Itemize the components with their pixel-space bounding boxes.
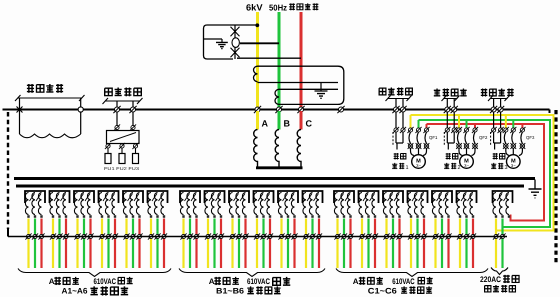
wire: fuse leads [108,148,136,154]
node: TV1 center pill [232,38,239,48]
svg-text:220AC: 220AC [480,275,501,284]
wire: main 6kV bus [3,110,550,114]
svg-text:FU1 FU2 FU3: FU1 FU2 FU3 [104,166,140,171]
svg-text:6kV: 6kV [246,3,263,13]
value label: to unit cabinet [485,285,516,293]
value label: group A phase coil 610VAC output [49,277,133,286]
wire: dashed cabinet border right [554,110,557,264]
svg-text:610VAC: 610VAC [392,277,415,286]
value label: 6kV 50Hz power input title [246,3,318,13]
svg-text:QF1: QF1 [429,135,438,140]
svg-text:1: 1 [406,165,409,171]
transformer secondary winding unit B1 [180,191,200,268]
ground: TV1 earth symbol [216,42,228,48]
wire: brace group B [179,269,325,277]
motor M2: cooling fan 2 [460,155,474,169]
breaker QF1 top contacts [393,127,399,133]
wire: phase A vertical (yellow) [256,12,259,111]
wire: filter rail 1 [258,65,339,67]
value label: 220AC output [480,275,519,284]
wire: TV1 ground branch [204,39,222,42]
inductor: bypass reactor wave [20,134,81,138]
wire: fan 1 colored drops [410,115,412,129]
wire: primary stub B (green) [278,111,281,130]
wire: phase B vertical (green) [278,12,281,111]
breaker QF1 linkage dashes [392,132,394,146]
svg-text:B: B [284,119,291,129]
value label: group C unit input C1~C6 [368,286,432,295]
node: tap2 upper contacts [114,124,120,130]
transformer secondary winding unit C1 [334,191,354,268]
breaker QF3 linkage dashes [490,132,492,146]
wire: fan 3 bracket [488,96,510,102]
transformer secondary winding unit B6 [303,191,323,268]
wire: fan 1 bracket [386,96,412,102]
motor M1: cooling fan 1 [412,155,426,169]
wire: fan 2 supply drops [447,99,454,131]
wire: TV1 bottom lead to phase C [237,57,301,59]
wire: fan 1 supply drops [396,99,403,131]
wire: dashed cabinet border left [7,112,9,229]
transformer secondary winding unit B2 [205,191,225,268]
svg-text:C: C [306,119,313,129]
wire: fan feeder green [419,120,551,227]
wire: motor 1 leads [411,148,427,155]
wire: fan 3 colored drops [505,115,507,129]
wire: TV1 top lead to phase A [233,24,256,26]
op box: surge arrester / PT unit TV1 outline [204,25,234,59]
node: fan 1 bus junctions [392,106,399,113]
transformer secondary winding unit A5 [123,191,143,268]
wire: motor 2 leads [459,148,475,155]
svg-text:3: 3 [505,165,508,171]
breaker QF3 bottom contacts [503,143,509,149]
transformer secondary winding unit A6 [148,191,168,268]
transformer secondary winding unit A4 [99,191,119,268]
breaker QF3 left poles [494,132,501,150]
value label: group C phase coil 610VAC output [353,277,433,286]
wire: TV1 middle lead to phase B [240,42,279,44]
transformer secondary winding unit B5 [278,191,298,268]
wire: fan feeder yellow [411,115,554,231]
wire: control tap 2 bracket [103,98,143,104]
breaker QF3 blades [504,132,522,144]
wire: output junction bus [8,236,507,238]
node: tap1 bus junctions [17,107,23,113]
wire: primary star bar [256,166,303,169]
motor M3: cooling fan 3 [507,155,521,169]
wire: brace group C [336,269,488,277]
wire: fan feeder red [427,124,545,221]
wire: phase C vertical (red) [300,12,303,111]
svg-text:QF3: QF3 [526,135,535,140]
svg-text:A1~A6: A1~A6 [62,287,89,296]
ground: filter earth symbol [315,91,328,98]
wire: filter rail 4 [279,103,338,105]
breaker QF1 blades [409,132,427,144]
value label: cooling fan 2 text [444,153,460,171]
transformer secondary winding unit C4 [408,191,428,268]
transformer secondary winding unit B3 [229,191,249,268]
inductor L2: choke on phase B (green) [275,89,279,104]
transformer secondary winding unit C2 [359,191,379,268]
inductor: primary winding phase A [254,130,258,167]
transformer secondary winding unit B4 [254,191,274,268]
wire: filter rail 2 [258,82,339,84]
wire: control tap 1 bracket [15,95,85,101]
svg-text:A: A [49,277,55,286]
transformer secondary winding unit 220AC [493,191,513,268]
value label: to control cabinet 1 [27,84,63,93]
value label: to control cabinet 2 [105,88,142,97]
svg-text:2: 2 [458,165,461,171]
switch box: PT changeover [107,131,140,144]
svg-text:610VAC: 610VAC [94,277,117,286]
transformer secondary winding unit C5 [432,191,452,268]
node: bus junction phase B [275,106,282,113]
value label: to control cabinet fan 3 [481,89,514,97]
wire: filter right bracket [338,66,344,104]
wire: filter rail 3 [279,88,338,90]
svg-text:50Hz: 50Hz [269,3,287,13]
breaker QF2 bottom contacts [456,143,462,149]
node: tap2 lower contacts [105,143,111,149]
inductor: primary winding phase B [275,130,279,167]
node: bus junction filter bracket [337,106,344,113]
breaker QF1 bottom contacts [408,143,414,149]
inductor: primary winding phase C [297,130,301,167]
fuse FU2 [119,154,125,164]
wire: fan 2 bracket [442,96,460,102]
wire: fan 3 supply drops [494,99,501,131]
transformer secondary winding unit A3 [74,191,94,268]
node: bus junction phase A [254,106,261,113]
wire: core ground stem [534,180,536,190]
transformer secondary winding unit C6 [457,191,477,268]
wire: core bar lower [16,185,524,188]
value label: cooling fan 3 text [491,153,507,171]
transformer secondary winding unit A2 [50,191,70,268]
wire: brace group 220AC [491,268,508,275]
wire: core bar upper [14,177,535,180]
wire: brace group A [18,269,171,277]
wire: primary stub C (red) [300,111,303,130]
value label: cooling fan 1 text [392,153,408,171]
value label: to control cabinet fan 2 [434,89,467,97]
node: bus junction phase C [297,106,304,113]
svg-text:610VAC: 610VAC [247,277,270,286]
inductor L1: choke on phase A (yellow) [254,66,258,81]
svg-text:A: A [262,119,269,129]
breaker QF1 left poles [396,132,403,150]
value label: to control cabinet fan 1 [379,88,412,96]
wire: filter ground stem [320,83,322,92]
value label: group A unit input A1~A6 [62,286,129,295]
svg-text:A: A [209,277,215,286]
node: fan 3 bus junctions [490,106,497,113]
svg-text:QF2: QF2 [479,135,488,140]
wire: motor 3 leads [506,148,523,155]
breaker QF2 linkage dashes [443,132,445,146]
fuse FU1 [105,154,111,164]
transformer secondary winding unit A1 [25,191,45,268]
fuse FU3 [133,154,139,164]
wire: primary stub A (yellow) [256,111,259,130]
svg-text:A: A [353,277,359,286]
transformer secondary winding unit C3 [383,191,403,268]
ground: secondary earth symbol [529,189,542,198]
wire: fan 2 colored drops [458,115,460,129]
node: fan 2 bus junctions [444,106,451,113]
node: tap2 bus junctions [113,106,120,113]
svg-text:C1~C6: C1~C6 [368,287,398,296]
transistor-like winding element: TV1 lower bowtie [231,48,240,58]
value label: group B phase coil 610VAC output [209,277,291,286]
breaker QF2 blades [458,132,476,144]
wire: control tap 1 drops [20,98,81,134]
breaker QF2 top contacts [444,127,450,133]
svg-text:B1~B6: B1~B6 [216,287,245,296]
transistor-like winding element: TV1 upper bowtie [234,25,236,59]
wire: control tap 2 drops [117,101,133,131]
value label: group B unit input B1~B6 [216,286,281,295]
breaker QF3 top contacts [491,127,497,133]
breaker QF2 left poles [447,132,454,150]
